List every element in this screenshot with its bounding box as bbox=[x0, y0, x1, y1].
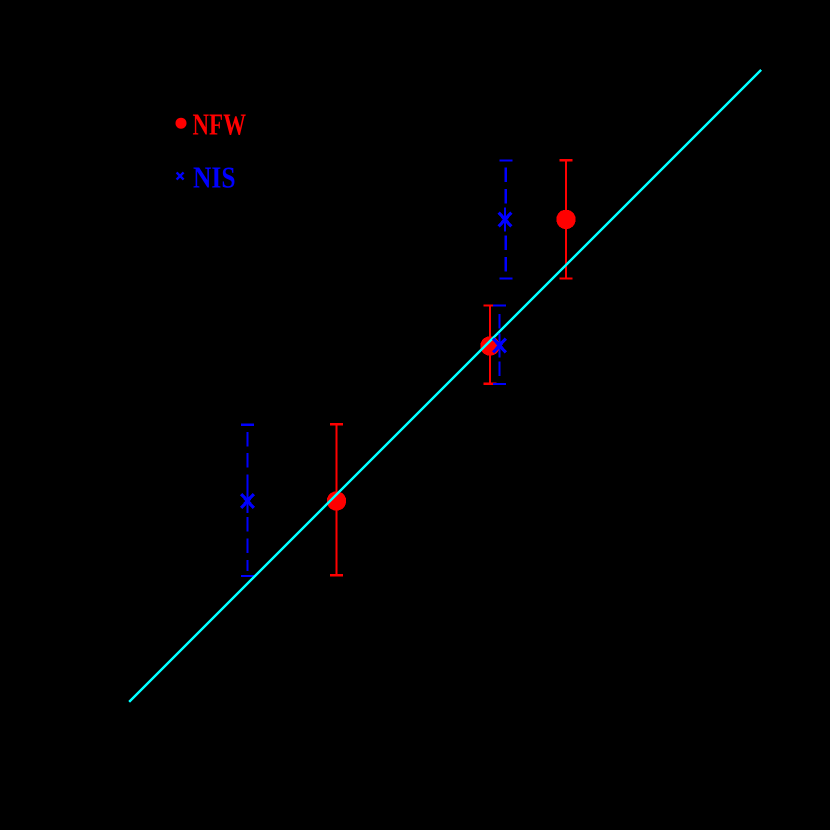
NFW point P2 (middle) bbox=[480, 336, 499, 355]
NIS point P1 (lower, asterisk marker) bbox=[241, 489, 254, 513]
NFW error bar P1 (lower) bbox=[330, 424, 343, 575]
NFW error bar P2 (middle) bbox=[484, 306, 497, 384]
legend NFW marker bbox=[176, 118, 187, 129]
NFW point P1 (lower) bbox=[327, 491, 346, 510]
NIS point P2 (middle, asterisk marker) bbox=[493, 334, 506, 358]
NIS error bar P1 (lower, dashed) bbox=[241, 425, 254, 576]
legend NIS marker bbox=[177, 172, 184, 179]
NFW point P3 (upper) bbox=[556, 210, 575, 229]
svg-text:NFW: NFW bbox=[193, 107, 247, 142]
NFW error bar P3 (upper) bbox=[560, 160, 573, 278]
NIS error bar P3 (upper, dashed) bbox=[499, 161, 512, 279]
svg-text:NIS: NIS bbox=[193, 160, 236, 195]
one-to-one cyan line bbox=[129, 70, 761, 702]
NIS error bar P2 (middle, dashed) bbox=[493, 306, 506, 385]
NIS point P3 (upper, asterisk marker) bbox=[499, 208, 512, 232]
